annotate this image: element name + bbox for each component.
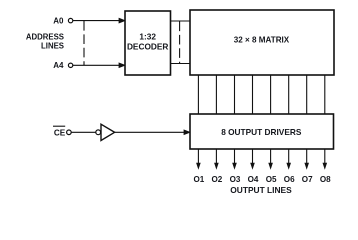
svg-text:8 OUTPUT DRIVERS: 8 OUTPUT DRIVERS [221, 127, 302, 137]
wire A0 to decoder [73, 18, 125, 23]
label 1:32 DECODER [127, 32, 169, 52]
svg-text:O3: O3 [230, 175, 241, 184]
wire output O1 [196, 149, 201, 170]
svg-text:LINES: LINES [41, 41, 64, 50]
terminal A4 [68, 63, 72, 67]
wire buffer to output drivers [115, 130, 190, 135]
wire matrix column 1 to drivers [197, 75, 199, 114]
svg-text:O8: O8 [320, 175, 331, 184]
wire output O6 [286, 149, 291, 170]
svg-text:1:32: 1:32 [139, 32, 156, 42]
label CE active-low [53, 126, 66, 137]
svg-text:ADDRESS: ADDRESS [26, 33, 64, 42]
wire output O2 [214, 149, 219, 170]
wire output O5 [268, 149, 273, 170]
wire output O3 [232, 149, 237, 170]
wire bus decoder to matrix top [171, 20, 190, 22]
wire matrix column 3 to drivers [234, 75, 236, 114]
wire output O4 [250, 149, 255, 170]
wire matrix column 8 to drivers [324, 75, 326, 114]
wire A4 to decoder [73, 63, 125, 68]
svg-text:O5: O5 [266, 175, 277, 184]
wire matrix column 5 to drivers [270, 75, 272, 114]
label ADDRESS LINES [26, 33, 64, 51]
svg-text:A0: A0 [53, 17, 64, 26]
svg-text:O1: O1 [193, 175, 204, 184]
wire matrix column 4 to drivers [252, 75, 254, 114]
svg-text:O6: O6 [284, 175, 295, 184]
svg-text:O4: O4 [248, 175, 259, 184]
terminal A0 [68, 18, 72, 22]
matrix U2 32x8 [190, 10, 334, 75]
decoder U1 1:32 [125, 11, 171, 75]
wire output O7 [304, 149, 309, 170]
wire CE to buffer [71, 131, 95, 133]
output drivers U4 [190, 114, 334, 149]
svg-text:O2: O2 [211, 175, 222, 184]
svg-text:O7: O7 [302, 175, 313, 184]
wire bus decoder to matrix bottom [171, 63, 190, 65]
svg-text:CE: CE [54, 128, 66, 137]
wire output O8 [323, 149, 328, 170]
buffer U3 [101, 124, 115, 140]
wire dashed bus continuation [179, 22, 181, 64]
svg-text:32 × 8 MATRIX: 32 × 8 MATRIX [234, 35, 290, 44]
svg-text:A4: A4 [53, 61, 64, 70]
wire dashed address-lines continuation A0..A4 [83, 21, 85, 65]
wire matrix column 7 to drivers [306, 75, 308, 114]
svg-text:OUTPUT LINES: OUTPUT LINES [230, 185, 292, 195]
svg-text:DECODER: DECODER [127, 42, 169, 52]
wire matrix column 6 to drivers [288, 75, 290, 114]
wire matrix column 2 to drivers [215, 75, 217, 114]
terminal CE [67, 130, 72, 135]
inverter bubble [96, 130, 101, 135]
